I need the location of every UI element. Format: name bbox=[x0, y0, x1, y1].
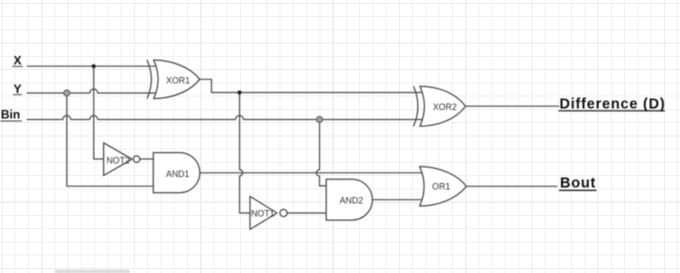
wire Bin input (hops at x=66.8, x=93.7, x=239.5) bbox=[27, 116, 426, 120]
wire OR1 output to Bout label bbox=[466, 185, 557, 187]
wire X input bbox=[27, 65, 160, 67]
svg-text:AND2: AND2 bbox=[340, 196, 364, 206]
wire XOR1 output to XOR2 top input bbox=[200, 79, 426, 92]
scrollbar remnant bottom bbox=[55, 270, 130, 273]
junction waypoint on Bin line (gray) bbox=[317, 117, 323, 123]
svg-text:X: X bbox=[13, 54, 21, 68]
and gate AND1 bbox=[153, 153, 200, 193]
svg-text:Bout: Bout bbox=[560, 176, 596, 192]
svg-text:AND1: AND1 bbox=[166, 169, 190, 179]
xor gate XOR2 body bbox=[420, 86, 466, 126]
xor gate XOR1 body bbox=[154, 60, 200, 99]
svg-text:Difference (D): Difference (D) bbox=[560, 97, 666, 113]
wire vertical from Y junction to AND1 bottom input bbox=[67, 93, 154, 186]
wire vertical from Bin junction to AND2 top input (hop over AND1 output) bbox=[316, 120, 326, 186]
wire vertical from X junction to NOT2 input bbox=[94, 66, 104, 159]
svg-text:NOT2: NOT2 bbox=[106, 156, 130, 166]
svg-text:NOT1: NOT1 bbox=[251, 209, 275, 219]
and gate AND2 bbox=[326, 179, 372, 220]
svg-text:XOR2: XOR2 bbox=[433, 102, 457, 112]
wire AND2 output to OR1 bottom input bbox=[373, 199, 427, 201]
not gate NOT1 bubble bbox=[280, 209, 287, 216]
not gate NOT1 triangle bbox=[250, 196, 277, 229]
wire AND1 output to OR1 top input bbox=[200, 172, 427, 174]
svg-text:XOR1: XOR1 bbox=[166, 76, 190, 86]
junction dot on X line bbox=[92, 64, 96, 68]
wire NOT1 output to AND2 bottom input bbox=[287, 212, 326, 214]
svg-text:Bin: Bin bbox=[1, 107, 20, 121]
xor gate XOR2 back arc bbox=[414, 86, 418, 126]
junction waypoint on Y line (gray) bbox=[64, 90, 70, 96]
not gate NOT2 bubble bbox=[133, 156, 140, 163]
xor gate XOR1 back arc bbox=[147, 60, 151, 99]
or gate OR1 bbox=[420, 167, 467, 207]
svg-text:OR1: OR1 bbox=[432, 182, 450, 192]
wire Y input (hop over vertical at x=93.7) bbox=[27, 89, 160, 93]
not gate NOT2 triangle bbox=[104, 143, 132, 176]
wire vertical from XOR1-out junction to NOT1 input (hop over AND1 output) bbox=[240, 93, 251, 214]
junction dot on XOR1 output line bbox=[237, 90, 241, 94]
wire NOT2 output to AND1 top input bbox=[140, 158, 154, 160]
svg-text:Y: Y bbox=[13, 82, 21, 96]
wire XOR2 output to Difference label bbox=[466, 105, 560, 107]
